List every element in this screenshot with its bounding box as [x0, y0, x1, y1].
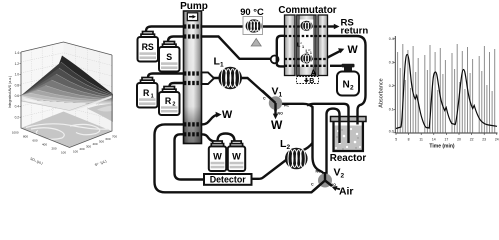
- tube: S to commutator via diagonal: [168, 37, 273, 59]
- bottle W1: [209, 141, 226, 171]
- axes: [395, 36, 497, 133]
- svg-text:1.2: 1.2: [15, 62, 20, 66]
- tube: Y junction arm to reactor tube: [307, 104, 349, 143]
- svg-text:100: 100: [73, 150, 78, 154]
- svg-text:200: 200: [80, 147, 85, 151]
- detector box: [204, 174, 252, 185]
- svg-text:W: W: [213, 152, 222, 162]
- tube: detector waste line to pump: [175, 134, 205, 179]
- svg-text:W: W: [222, 109, 233, 121]
- commutator bars: [285, 15, 328, 76]
- lower plane back part: [21, 88, 112, 111]
- svg-text:B: B: [309, 78, 314, 85]
- svg-text:HC: HC: [284, 104, 290, 108]
- pump tube clamps (dotted rows): [184, 27, 201, 135]
- svg-text:600: 600: [32, 139, 37, 143]
- svg-text:300: 300: [86, 145, 91, 149]
- svg-text:Integrated AVS (a.u.): Integrated AVS (a.u.): [8, 76, 12, 108]
- svg-text:600: 600: [106, 137, 111, 141]
- arrow Air into V2: [336, 188, 340, 189]
- Z axis ticks + labels: [15, 51, 21, 119]
- svg-text:2: 2: [350, 85, 354, 92]
- tube: pump to W arrow: [202, 115, 219, 125]
- tube: commutator row2 down right side into reactor: [328, 36, 366, 125]
- arrow RS return: [328, 25, 336, 27]
- svg-text:0.6: 0.6: [15, 94, 20, 98]
- svg-text:0.2: 0.2: [15, 115, 20, 119]
- tube: N2 line to commutator: [330, 65, 342, 67]
- valve V1: [262, 91, 282, 112]
- svg-text:22: 22: [470, 138, 474, 142]
- svg-text:1.4: 1.4: [15, 51, 20, 55]
- svg-text:return: return: [341, 25, 369, 36]
- svg-text:0.4: 0.4: [15, 105, 20, 109]
- tube: R2 to pump: [170, 83, 202, 87]
- svg-text:1: 1: [279, 92, 283, 99]
- svg-text:NO: NO: [278, 112, 284, 116]
- reactor inner tubes: [338, 117, 340, 143]
- svg-text:0.1: 0.1: [389, 108, 394, 112]
- svg-text:RS: RS: [142, 42, 154, 52]
- wall grid: [21, 45, 112, 127]
- svg-text:A: A: [311, 67, 317, 77]
- y tick labels: [389, 37, 394, 134]
- commutator bypass loop: [277, 36, 285, 67]
- svg-text:400: 400: [93, 142, 98, 146]
- svg-text:700: 700: [112, 135, 117, 139]
- dashed box position B: [297, 77, 319, 84]
- svg-text:14: 14: [432, 138, 436, 142]
- svg-text:0.3: 0.3: [389, 61, 394, 65]
- tube: detector to L2: [252, 159, 289, 179]
- svg-text:0.2: 0.2: [389, 84, 394, 88]
- tube: V2 air-lift arc into reactor: [327, 109, 340, 174]
- svg-text:Time (min): Time (min): [429, 144, 455, 150]
- tube: air line V2 to pump (long loop): [155, 124, 323, 192]
- svg-text:8: 8: [408, 138, 410, 142]
- svg-text:1: 1: [220, 62, 224, 69]
- svg-text:1000: 1000: [12, 131, 19, 135]
- bottle R2: [159, 87, 180, 116]
- floor plane: [21, 112, 112, 148]
- svg-text:Pump: Pump: [180, 1, 208, 12]
- back-left wall: [21, 42, 112, 131]
- svg-text:2: 2: [287, 144, 291, 151]
- svg-text:1: 1: [151, 94, 154, 100]
- svg-text:R: R: [165, 96, 172, 106]
- bottle RS: [138, 32, 159, 62]
- tube: RS to 90C coil to commutator: [146, 27, 285, 32]
- svg-text:20: 20: [457, 138, 461, 142]
- svg-text:S: S: [166, 52, 172, 62]
- confluence fitting: [202, 72, 215, 84]
- svg-text:1: 1: [310, 51, 312, 55]
- svg-text:5: 5: [395, 138, 397, 142]
- svg-text:W: W: [271, 118, 283, 132]
- svg-text:Absorbance: Absorbance: [379, 78, 385, 107]
- commutator dashed flow rows: [285, 27, 328, 66]
- bottle S: [159, 42, 180, 72]
- X axis ticks: [12, 131, 67, 155]
- svg-text:24: 24: [495, 138, 499, 142]
- axes frame: [21, 42, 112, 148]
- right lower sheet: [87, 104, 113, 123]
- svg-text:11: 11: [419, 138, 423, 142]
- arrow W V1 waste: [274, 109, 276, 116]
- svg-text:V: V: [272, 86, 279, 98]
- svg-text:C: C: [311, 183, 314, 187]
- bottle R1: [137, 78, 158, 108]
- svg-text:1: 1: [302, 45, 304, 49]
- svg-text:N: N: [343, 80, 350, 91]
- flat lower plane front part: [21, 96, 112, 111]
- reactor vessel: [331, 117, 367, 152]
- svg-text:V: V: [334, 167, 341, 179]
- recorder trace bars: [398, 44, 495, 132]
- svg-text:800: 800: [23, 135, 28, 139]
- svg-text:0.0: 0.0: [389, 130, 394, 134]
- response surface: [21, 56, 113, 104]
- svg-text:90 °C: 90 °C: [240, 6, 264, 17]
- valve V2: [313, 172, 332, 191]
- svg-text:500: 500: [99, 140, 104, 144]
- coil L2: [285, 148, 308, 170]
- arrow head W pump waste: [216, 112, 222, 118]
- S line fitting bump: [271, 56, 279, 64]
- svg-text:Air: Air: [339, 186, 353, 197]
- fiagram curve: [396, 55, 497, 129]
- svg-text:NC: NC: [316, 170, 322, 174]
- sample loop glyph bottom: [301, 54, 313, 64]
- tube: V1 output to Y junction, stem down to V2: [276, 104, 326, 177]
- svg-text:0.8: 0.8: [15, 83, 20, 87]
- svg-text:2: 2: [172, 102, 175, 108]
- svg-text:400: 400: [42, 143, 47, 147]
- tube: R1 to pump: [148, 74, 202, 78]
- tube: L2 join stem: [303, 143, 313, 151]
- floor contour bands: [26, 124, 108, 139]
- svg-text:23: 23: [482, 138, 486, 142]
- svg-text:Reactor: Reactor: [330, 153, 367, 164]
- svg-text:C: C: [263, 97, 266, 101]
- tube: merged R line to L1 to V1: [214, 78, 276, 103]
- back-right wall: [64, 42, 113, 131]
- svg-text:200: 200: [51, 147, 56, 151]
- svg-text:0.4: 0.4: [389, 37, 394, 41]
- svg-text:2: 2: [341, 173, 345, 180]
- svg-text:100: 100: [61, 151, 66, 155]
- svg-text:17: 17: [445, 138, 449, 142]
- svg-text:Detector: Detector: [210, 175, 247, 185]
- svg-text:W: W: [348, 44, 359, 56]
- N2 cylinder: [337, 64, 359, 96]
- arrow W commutator waste: [328, 51, 341, 58]
- svg-text:R: R: [143, 88, 150, 98]
- heated coil box: [243, 17, 263, 35]
- bottle W2: [228, 141, 245, 171]
- tube: pump to W bottles arcs: [202, 134, 235, 142]
- heater triangle: [251, 39, 261, 47]
- coil L1: [218, 67, 242, 89]
- Y axis ticks: [73, 135, 117, 154]
- sample loop glyph top: [301, 21, 313, 31]
- svg-text:W: W: [232, 152, 241, 162]
- x tick labels: [395, 138, 499, 142]
- coil 90C: [246, 19, 262, 32]
- pump: [184, 11, 202, 144]
- svg-text:1.0: 1.0: [15, 73, 20, 77]
